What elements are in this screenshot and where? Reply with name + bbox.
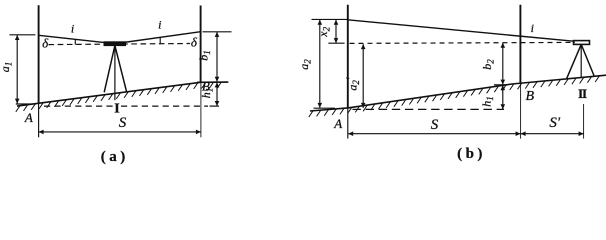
extension below B figure b (520, 84, 522, 139)
svg-text:δ: δ (42, 36, 49, 51)
staff A (left rod, figure b) (347, 5, 349, 108)
staff A (left rod, figure a) (38, 5, 40, 104)
a1 top tick (10, 34, 36, 36)
ground hatching figure a (16, 82, 222, 112)
svg-text:B: B (202, 79, 210, 94)
tripod figure b (567, 44, 595, 79)
dashed horizontal line of sight, figure b (350, 42, 576, 43)
dimension a2prime (correct reading at A) (362, 44, 364, 108)
dimension Sprime figure b (521, 133, 584, 135)
a2 bottom tick (314, 107, 336, 109)
inclined sight line left (error i), figure a (39, 35, 115, 43)
figure (a) leveling: instrument midway between staffs (0, 5, 231, 165)
small tick at dashed line for x (328, 42, 344, 44)
svg-text:δ: δ (191, 34, 198, 49)
dashed datum line at level of A, figure b (353, 108, 505, 110)
staff B (right rod, figure a) (200, 6, 202, 84)
extension below station II (583, 104, 585, 139)
telescope U (level instrument, figure b) (574, 41, 590, 45)
svg-text:(a): (a) (101, 149, 129, 165)
svg-text:S: S (431, 117, 439, 133)
inclined sight line (error i), figure b (348, 20, 574, 41)
svg-text:A: A (24, 110, 33, 125)
b1 top tick at sight line (203, 31, 232, 33)
telescope U (level instrument, figure a) (104, 42, 126, 46)
svg-text:(b): (b) (457, 146, 486, 162)
angle tick right under i (159, 37, 161, 43)
dimension a1 (left reading) (16, 35, 18, 103)
extension below A figure b (347, 108, 349, 139)
tripod figure a (104, 46, 126, 101)
extension line below B down to S dimension (200, 83, 202, 137)
angle tick left under i (74, 40, 76, 45)
dimension b1 (right reading) (216, 32, 218, 82)
svg-text:i: i (531, 21, 534, 35)
dashed horizontal line of sight, figure a (49, 44, 191, 45)
dimension S figure b (348, 133, 520, 135)
figure (b) leveling: instrument close behind B (297, 5, 606, 162)
a1 bottom tick (16, 103, 33, 105)
dimension S figure a (39, 131, 201, 133)
ground line figure b (310, 75, 606, 111)
svg-text:II: II (578, 86, 587, 101)
staff B (right rod, figure b) (519, 5, 521, 84)
dimension x (error at staff A) (335, 20, 337, 43)
tick at ground level of B (197, 81, 229, 83)
dimension b2 (reading at B) (502, 43, 504, 85)
svg-text:S: S (119, 115, 127, 131)
ground hatching figure b (309, 76, 600, 117)
svg-text:S′: S′ (549, 115, 561, 131)
dimension a2 (actual reading at A) (319, 20, 321, 108)
dashed datum line at level of A, figure a (44, 105, 113, 107)
dimension h2 (height difference figure b) (502, 85, 504, 109)
dimension h1 (height difference) (216, 82, 218, 106)
ground line figure a (17, 82, 228, 106)
svg-text:B: B (526, 89, 535, 104)
svg-text:i: i (71, 22, 74, 36)
svg-text:A: A (333, 116, 342, 131)
inclined sight line right (error i), figure a (115, 32, 201, 44)
svg-text:i: i (158, 17, 161, 31)
b2 bottom tick at ground of B (494, 84, 507, 86)
top tick at sight line figure b (312, 18, 348, 20)
extension line below A down to S dimension (38, 104, 40, 138)
